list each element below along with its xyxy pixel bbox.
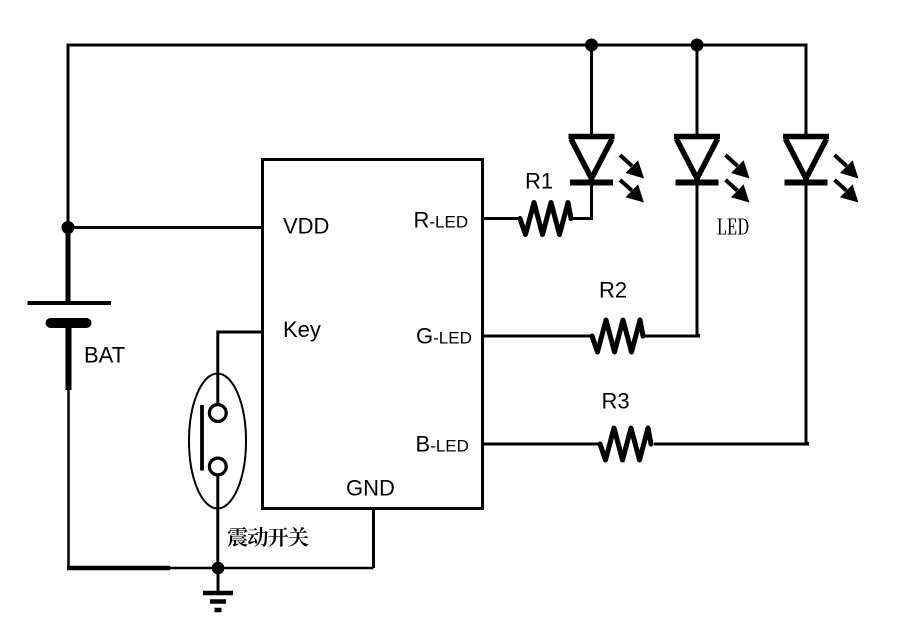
wire LED1 anode stem: [590, 45, 593, 137]
wire top rail: [68, 44, 806, 47]
wire LED3 cathode stem: [805, 183, 808, 444]
wire LED2 anode stem: [696, 45, 699, 137]
wire Key pin to switch: [218, 332, 262, 404]
battery BT1 negative plate: [51, 318, 87, 328]
wire G-LED pin: [483, 335, 592, 338]
wire GND pin vertical: [372, 509, 375, 568]
wire R-LED pin: [483, 217, 520, 220]
wire LED3 anode stem: [805, 44, 808, 138]
node junction LED1 top: [585, 39, 598, 52]
resistor R3: [600, 428, 651, 460]
resistor R2: [592, 320, 643, 352]
battery BT1 negative lead thick: [66, 323, 72, 390]
svg-text:VDD: VDD: [283, 214, 329, 239]
wire LED2 cathode stem: [696, 183, 699, 336]
wire R2 to LED2: [645, 334, 699, 336]
switch contact bottom: [209, 458, 226, 475]
wire bottom rail: [170, 567, 374, 570]
label 震动开关 vibration switch: [228, 527, 309, 547]
wire R3 to LED3: [654, 442, 808, 444]
switch contact top: [209, 405, 226, 422]
battery BT1 positive lead: [66, 228, 71, 301]
wire battery to bottom rail: [67, 390, 70, 568]
wire R1 to LED1: [571, 217, 593, 220]
node junction switch-ground: [212, 562, 225, 575]
label LED (serif): [717, 218, 748, 234]
wire VDD horizontal: [68, 226, 262, 229]
svg-text:GND: GND: [346, 476, 395, 501]
wire left rail vertical: [67, 44, 70, 229]
svg-text:R3: R3: [602, 389, 630, 414]
svg-text:R1: R1: [525, 169, 553, 194]
wire switch to junction: [216, 476, 219, 569]
LED D2: [674, 137, 750, 203]
LED D3: [783, 137, 859, 203]
IC U1 body: [263, 160, 483, 509]
vibration switch S1 body: [189, 374, 246, 509]
node junction VDD-battery: [62, 221, 75, 234]
LED D1: [569, 137, 645, 203]
svg-text:Key: Key: [283, 317, 321, 342]
battery BT1 positive plate: [28, 301, 112, 305]
switch actuator bar: [200, 405, 204, 471]
wire bottom rail thick segment: [67, 566, 170, 571]
svg-text:BAT: BAT: [84, 343, 125, 368]
node junction LED2 top: [691, 39, 704, 52]
ground symbol: [203, 568, 233, 610]
svg-text:R2: R2: [599, 278, 627, 303]
resistor R1: [520, 203, 571, 235]
wire LED1 cathode stem: [590, 183, 593, 219]
wire B-LED pin: [483, 443, 600, 446]
